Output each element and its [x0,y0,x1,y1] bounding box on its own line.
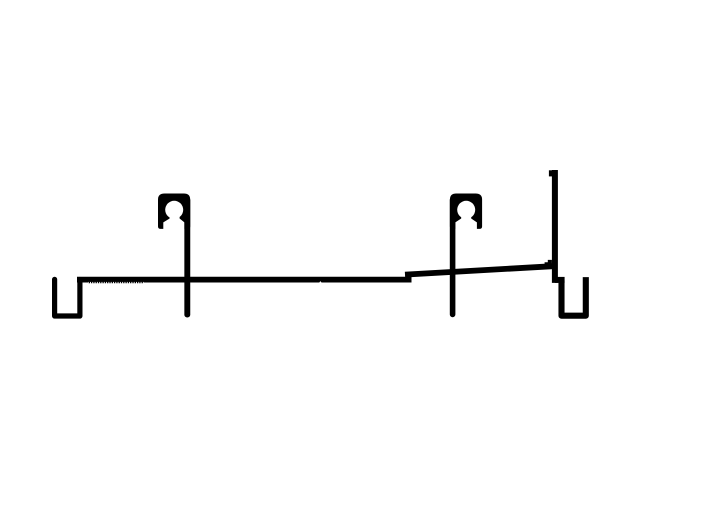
hook U1 slot (white neck and lower opening) [163,212,184,231]
post P2 (right hanger stem) [450,200,456,314]
left U channel [55,279,80,316]
hook U2 bore (white circular cavity) [457,201,475,219]
hook U1 arch (left glider channel outer shape) [158,194,190,229]
serration teeth (knurling) [89,281,143,283]
post P1 (left hanger stem) [184,200,190,315]
notch (small white nick on baseline bottom edge) [319,281,322,283]
junction step (small staircase bump left of tall flange) [545,260,552,267]
serration carve (white) under baseline [88,282,144,285]
hook U2 slot (white neck and lower opening) [455,212,477,231]
tall flange top lug (small leftward tab) [549,170,552,176]
hook U2 arch (right glider channel outer shape) [450,194,482,229]
baseline web (flat horizontal wall) [77,277,412,283]
hook U1 bore (white circular cavity) [165,201,183,219]
sloped web (rising wall to the right) [405,266,553,274]
jog shelf (step from tall flange to right U) [555,277,565,283]
right U channel [562,277,586,316]
tall flange (right vertical wall) [552,170,558,283]
